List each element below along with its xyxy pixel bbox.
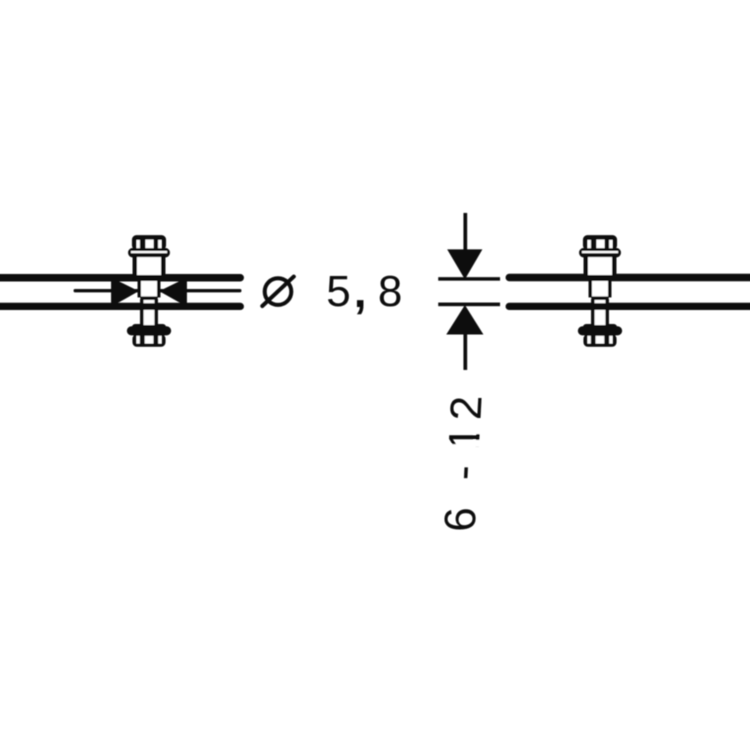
svg-text:8: 8: [378, 267, 402, 316]
svg-text:5: 5: [326, 267, 350, 316]
svg-text:6 - 12: 6 - 12: [436, 390, 492, 531]
svg-text:,: ,: [354, 265, 367, 317]
